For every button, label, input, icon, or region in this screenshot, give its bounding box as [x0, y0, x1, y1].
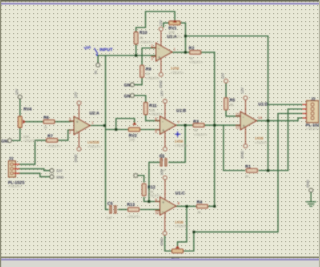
resistor R10 [134, 30, 153, 45]
svg-text:<TEXT>: <TEXT> [88, 145, 101, 149]
node: U1:C output junction [186, 205, 189, 208]
svg-text:GND: GND [160, 237, 164, 245]
connector J2 [303, 96, 320, 131]
blue origin marker [175, 132, 180, 137]
node: R10 junction [135, 54, 138, 57]
svg-text:2: 2 [151, 44, 153, 48]
svg-text:9: 9 [155, 198, 157, 202]
node: U1:B output junction [184, 124, 187, 127]
resistor R5 [221, 72, 235, 110]
potentiometer RV3 [171, 246, 183, 262]
svg-text:<TEXT>: <TEXT> [48, 144, 61, 148]
svg-text:C5: C5 [107, 201, 113, 206]
wire: J2 pin2 to R1 row [288, 109, 306, 171]
wire: input distribution vertical [105, 56, 107, 210]
resistor R1 [245, 164, 257, 178]
svg-text:IN: IN [94, 70, 98, 74]
svg-text:<TEXT>: <TEXT> [255, 141, 268, 145]
op-amp U1:C [155, 169, 188, 246]
svg-text:12V: 12V [241, 87, 245, 94]
resistor R4 [197, 200, 208, 215]
ground terminal right [306, 188, 315, 206]
svg-text:12V: 12V [160, 169, 164, 176]
svg-text:<TEXT>: <TEXT> [175, 144, 188, 148]
svg-text:13: 13 [236, 113, 240, 117]
svg-text:RV4: RV4 [24, 107, 33, 112]
node: R4 to big vertical junction [213, 205, 216, 208]
svg-text:4k: 4k [197, 210, 201, 214]
svg-text:4k: 4k [230, 103, 234, 107]
svg-text:R13: R13 [127, 202, 135, 207]
wire: RV4 wiper to R6 to U2:A [26, 121, 44, 123]
node: RV2 loop junction [115, 128, 118, 131]
svg-text:<TEXT>: <TEXT> [146, 77, 159, 81]
svg-text:+: + [162, 200, 165, 205]
svg-text:R9: R9 [146, 67, 152, 72]
wire: RV2 bypass loop [116, 119, 135, 130]
resistor R6 [44, 115, 55, 130]
svg-text:U1:C: U1:C [175, 191, 185, 196]
svg-text:1uF: 1uF [106, 216, 113, 220]
wire: RV4 top lead [19, 99, 21, 116]
svg-text:<TEXT>: <TEXT> [23, 139, 36, 143]
svg-text:<TEXT>: <TEXT> [194, 133, 207, 137]
resistor R9 [140, 65, 159, 80]
wire: R1 row [224, 170, 245, 172]
svg-text:10: 10 [155, 211, 159, 215]
GND terminal upper (to R9) [124, 83, 134, 88]
svg-text:6: 6 [155, 117, 157, 121]
terminal GND (J1) [50, 175, 54, 179]
svg-text:U1:A: U1:A [167, 34, 177, 39]
svg-text:C1: C1 [159, 154, 165, 159]
svg-text:12V: 12V [15, 88, 19, 95]
connector J1 [8, 156, 25, 189]
wire: J1 pin3 to GND terminal [19, 173, 50, 176]
resistor R3 [193, 119, 207, 137]
svg-text:+: + [243, 124, 246, 129]
svg-text:GND: GND [241, 150, 245, 158]
svg-text:R3: R3 [193, 119, 199, 124]
svg-text:12: 12 [236, 126, 240, 130]
wire: U1:B output row to U1:D - input, through R3 [176, 124, 193, 126]
node: R2 feedback junction [184, 51, 187, 54]
svg-text:R11: R11 [149, 103, 157, 108]
svg-text:R12: R12 [148, 185, 156, 190]
node: U1:D output junction [267, 120, 270, 123]
svg-text:5: 5 [155, 130, 157, 134]
wire: C1 coupling branch [169, 125, 185, 162]
wire: GND to RV4 bottom [12, 128, 20, 141]
wire: U1:A output row through R2 [172, 51, 190, 53]
wire: J1 pin2 to 12V terminal [19, 169, 50, 171]
svg-text:7: 7 [178, 121, 180, 125]
wire: GND2 to R11 top [134, 96, 145, 103]
svg-text:+: + [158, 55, 161, 60]
wire: input row to U1:A + input [98, 56, 156, 64]
resistor R13 [127, 202, 140, 219]
wire: R1 left vertical to summing row [223, 125, 225, 170]
wire: top L route to U1:D output node [186, 36, 269, 171]
svg-text:GND: GND [159, 80, 163, 88]
wire: R9 bottom to GND terminal [134, 77, 142, 85]
svg-text:1k: 1k [44, 126, 48, 130]
svg-text:1: 1 [174, 48, 176, 52]
wire: RV1 left lead [164, 23, 170, 27]
svg-text:U2:A: U2:A [90, 111, 100, 116]
op-amp U1:B [155, 90, 188, 162]
svg-text:GND: GND [56, 175, 64, 179]
wire: R11 bottom to U1:B - input [146, 115, 160, 121]
node: output to R1 junction [267, 169, 270, 172]
svg-text:<TEXT>: <TEXT> [127, 215, 140, 219]
svg-text:+: + [76, 120, 79, 125]
wire: row to RV2 and U1:B + input [106, 129, 129, 131]
svg-text:J2: J2 [311, 96, 316, 101]
wire: R5 top lead [225, 83, 227, 97]
svg-text:J1: J1 [9, 156, 14, 161]
svg-text:R6: R6 [44, 115, 50, 120]
wire: U1:C output down to RV3 wiper [178, 206, 187, 246]
svg-text:+: + [162, 128, 165, 133]
svg-text:R10: R10 [140, 30, 148, 35]
svg-text:12V: 12V [56, 169, 63, 173]
svg-text:12V: 12V [160, 90, 164, 97]
svg-text:<TEXT>: <TEXT> [171, 71, 184, 75]
potentiometer RV4 [15, 88, 36, 143]
svg-text:<TEXT>: <TEXT> [175, 225, 188, 229]
svg-text:4k: 4k [245, 174, 249, 178]
resistor R11 [144, 103, 163, 117]
op-amp U1:A [151, 19, 184, 88]
wire: U1:A inverting input from R9 column [142, 48, 156, 66]
svg-text:R4: R4 [197, 200, 203, 205]
op-amp U1:D [236, 87, 269, 159]
node: C1 branch junction [148, 200, 151, 203]
node: U2:A output junction [103, 124, 106, 127]
svg-text:3: 3 [151, 57, 153, 61]
op-amp U2:A [69, 91, 101, 162]
wire: R10 column and top feedback loop to RV1 wiper [136, 12, 175, 56]
svg-text:12V: 12V [159, 19, 163, 26]
svg-text:2: 2 [69, 131, 71, 135]
terminal 12V (J1) [50, 169, 54, 173]
input terminal [96, 63, 100, 67]
svg-text:3: 3 [69, 118, 71, 122]
svg-text:U1:D: U1:D [258, 101, 268, 106]
svg-text:GND: GND [306, 179, 310, 187]
resistor R2 [189, 45, 203, 64]
svg-text:12V: 12V [74, 91, 78, 98]
resistor R7 [47, 133, 61, 148]
node: top L junction [184, 35, 187, 38]
svg-text:1: 1 [92, 121, 94, 125]
svg-text:GND: GND [74, 154, 78, 162]
wire: U1:C output row through R4 [176, 205, 196, 207]
svg-text:R2: R2 [189, 45, 195, 50]
svg-text:4k: 4k [140, 36, 144, 40]
wire: RV3 right to bottom route to J2 pin3 [183, 114, 305, 252]
wire: J2 pin1 long wire [268, 104, 306, 106]
svg-text:8: 8 [178, 202, 180, 206]
GND terminal left (RV4) [1, 138, 12, 143]
wire: C5/R13 chain to U1:C + input [106, 209, 109, 211]
wire: U1:D - input to R5 [226, 111, 241, 117]
svg-text:U1:B: U1:B [176, 108, 186, 113]
svg-text:14: 14 [258, 116, 262, 120]
wire: RV1 feedback vertical [180, 23, 185, 52]
potentiometer RV2 [129, 122, 140, 142]
svg-text:R5: R5 [230, 98, 236, 103]
input probe label (blue) [83, 44, 113, 56]
svg-text:<TEXT>: <TEXT> [189, 60, 202, 64]
wire: U2:A output to input vertical [90, 125, 105, 127]
node: RV3 bottom route junction [193, 231, 196, 234]
svg-text:<TEXT>: <TEXT> [149, 113, 162, 117]
wire: R2 big vertical down to R4 row [214, 52, 216, 206]
svg-text:1k: 1k [146, 72, 150, 76]
node: summing node junction [213, 124, 216, 127]
svg-text:R7: R7 [48, 133, 54, 138]
svg-text:INPUT: INPUT [100, 47, 113, 52]
potentiometer RV1 [169, 20, 182, 39]
capacitor C1 [159, 154, 167, 173]
svg-text:<TEXT>: <TEXT> [306, 127, 319, 131]
svg-text:10K: 10K [129, 138, 136, 142]
svg-text:<TEXT>: <TEXT> [8, 184, 21, 188]
wire: U2:A + input via R7 from J1 [58, 130, 75, 140]
GND terminal lower (to R11) [124, 93, 134, 98]
svg-text:12V: 12V [221, 72, 225, 79]
svg-text:R1: R1 [245, 164, 251, 169]
capacitor C5 [106, 201, 116, 220]
wire: R12 terminal and column [138, 176, 144, 183]
wire: U1:C V- pin down to RV3 left [165, 235, 172, 251]
resistor R12 [134, 174, 161, 198]
wire: U1:D output row, jog to J2 pin4 [257, 118, 306, 121]
